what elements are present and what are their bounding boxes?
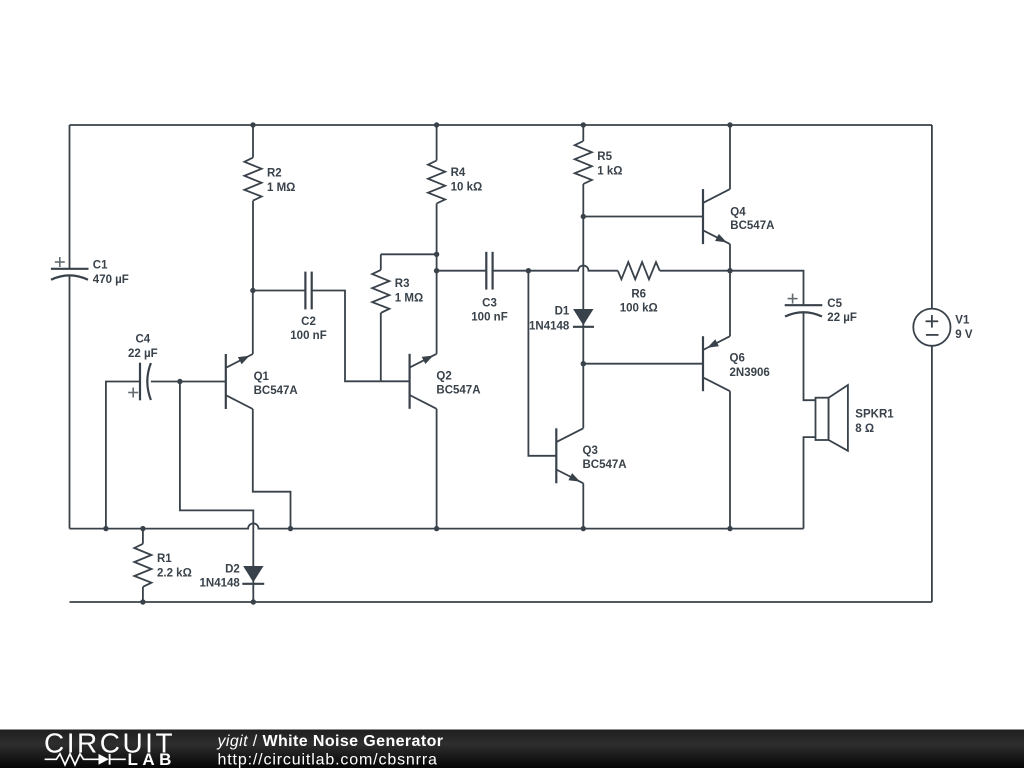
svg-text:R6: R6 <box>631 288 646 300</box>
wire amp node to C5 <box>730 271 804 306</box>
diode D2 <box>243 566 263 582</box>
resistor R1 <box>142 529 144 544</box>
svg-text:R3: R3 <box>395 278 410 290</box>
wire C4 to Q1 base <box>151 381 226 383</box>
svg-text:1 MΩ: 1 MΩ <box>267 182 295 194</box>
svg-text:C4: C4 <box>135 333 150 345</box>
node mid rail / Q6 collector <box>727 526 732 531</box>
node mid rail / Q2 emitter <box>434 526 439 531</box>
node R2/C2/Q1 <box>250 288 255 293</box>
wire top power rail <box>70 124 932 126</box>
capacitor C5 <box>785 304 823 306</box>
node R4/C3/Q2 collector <box>434 268 439 273</box>
node D1/Q3 collector/Q6 base <box>581 361 586 366</box>
svg-text:R2: R2 <box>267 168 282 180</box>
svg-text:C2: C2 <box>301 316 316 328</box>
transistor Q4 <box>702 189 704 244</box>
svg-text:R5: R5 <box>597 151 612 163</box>
svg-text:C3: C3 <box>482 297 497 309</box>
wire C5 to speaker <box>804 313 816 401</box>
capacitor C1 <box>51 268 89 270</box>
node C3/Q3 base <box>526 268 531 273</box>
svg-text:R4: R4 <box>451 167 466 179</box>
svg-text:1 kΩ: 1 kΩ <box>597 166 622 178</box>
svg-text:Q6: Q6 <box>730 353 745 365</box>
svg-text:V1: V1 <box>955 314 970 326</box>
node mid rail / R1 <box>140 526 145 531</box>
svg-text:1 MΩ: 1 MΩ <box>395 293 423 305</box>
node bottom rail / D2 <box>251 599 256 604</box>
resistor R3 <box>381 253 437 255</box>
svg-text:100 nF: 100 nF <box>471 312 507 324</box>
wire Q2/R4 node to C3 <box>437 270 487 272</box>
svg-text:1N4148: 1N4148 <box>200 577 241 589</box>
svg-text:C5: C5 <box>827 298 842 310</box>
svg-text:http://circuitlab.com/cbsnrra: http://circuitlab.com/cbsnrra <box>218 752 438 768</box>
capacitor C2 <box>304 272 306 310</box>
diode D1 <box>582 217 584 364</box>
svg-text:100 kΩ: 100 kΩ <box>620 303 658 315</box>
wire R5/D1 node to Q4 base <box>583 216 703 218</box>
svg-text:22 µF: 22 µF <box>128 348 158 360</box>
svg-text:Q1: Q1 <box>254 371 270 383</box>
svg-text:SPKR1: SPKR1 <box>855 408 894 420</box>
node mid rail / C4 branch <box>103 526 108 531</box>
svg-text:Q4: Q4 <box>730 206 746 218</box>
transistor Q2 <box>409 354 411 409</box>
svg-text:470 µF: 470 µF <box>93 274 129 286</box>
wire right rail lower (from V1) <box>931 346 933 602</box>
wire C3 node to R6 with hop over D1 <box>528 266 617 271</box>
wire mid rail with hop over D2 branch <box>70 523 804 528</box>
svg-text:BC547A: BC547A <box>436 385 480 397</box>
wire Q3 base drop <box>528 271 556 456</box>
node top rail / R4 <box>434 122 439 127</box>
node R6/Q4 emitter/Q6 emitter/C5 <box>727 268 732 273</box>
node mid rail / Q1 emitter <box>288 526 293 531</box>
transistor Q3 <box>555 428 557 483</box>
svg-text:9 V: 9 V <box>955 329 973 341</box>
svg-text:BC547A: BC547A <box>254 385 298 397</box>
svg-text:8 Ω: 8 Ω <box>855 423 874 435</box>
voltage source V1 <box>913 309 950 346</box>
svg-text:2.2 kΩ: 2.2 kΩ <box>157 568 192 580</box>
wire bottom ground rail <box>70 601 932 603</box>
svg-text:BC547A: BC547A <box>730 220 774 232</box>
wire speaker return <box>804 437 816 528</box>
resistor R4 <box>436 125 438 161</box>
wire Q3/D1 node to Q6 base <box>583 363 703 365</box>
wire divider node to D2 <box>180 382 253 603</box>
resistor R5 <box>582 125 584 141</box>
svg-text:R1: R1 <box>157 553 172 565</box>
svg-text:100 nF: 100 nF <box>290 330 326 342</box>
svg-text:C1: C1 <box>93 260 108 272</box>
svg-text:1N4148: 1N4148 <box>529 320 570 332</box>
node mid rail / Q3 emitter <box>581 526 586 531</box>
speaker SPKR1 <box>816 398 829 440</box>
node R4/R3 tee <box>434 252 439 257</box>
svg-text:yigit / White Noise Generator: yigit / White Noise Generator <box>217 733 444 750</box>
wire right rail upper (to V1) <box>931 125 933 309</box>
svg-text:D1: D1 <box>555 305 570 317</box>
capacitor C3 <box>485 252 487 290</box>
wire C3 to Q3 base node <box>493 270 529 272</box>
transistor Q6 <box>702 336 704 391</box>
svg-text:2N3906: 2N3906 <box>730 367 770 379</box>
node top rail / R2 <box>250 122 255 127</box>
wire C2 to R3/Q2 base <box>312 291 381 382</box>
svg-text:LAB: LAB <box>128 750 176 768</box>
svg-text:Q2: Q2 <box>436 371 451 383</box>
node R5/D1/Q4 base <box>581 214 586 219</box>
wire R3 node to Q2 base <box>381 380 410 382</box>
node C4/Q1-base junction <box>177 379 182 384</box>
resistor R6 <box>618 262 660 279</box>
svg-text:10 kΩ: 10 kΩ <box>451 182 483 194</box>
resistor R2 <box>252 125 254 158</box>
svg-text:Q3: Q3 <box>583 445 598 457</box>
footer bar background <box>0 730 1024 768</box>
CircuitLab logo resistor-diode glyph <box>45 754 99 765</box>
wire left rail below C1 <box>69 276 71 529</box>
node top rail / Q4 collector <box>727 122 732 127</box>
svg-text:D2: D2 <box>225 563 240 575</box>
svg-text:BC547A: BC547A <box>583 459 627 471</box>
transistor Q1 <box>225 354 227 409</box>
wire R6 to amp node <box>660 270 730 272</box>
node top rail / R5 <box>581 122 586 127</box>
wire R2/Q1 node to C2 <box>253 290 305 292</box>
wire left rail above C1 <box>69 125 71 269</box>
node bottom rail / R1 <box>140 599 145 604</box>
wire C4 to mid rail <box>106 382 140 529</box>
capacitor C4 <box>139 363 141 401</box>
svg-text:22 µF: 22 µF <box>827 312 857 324</box>
